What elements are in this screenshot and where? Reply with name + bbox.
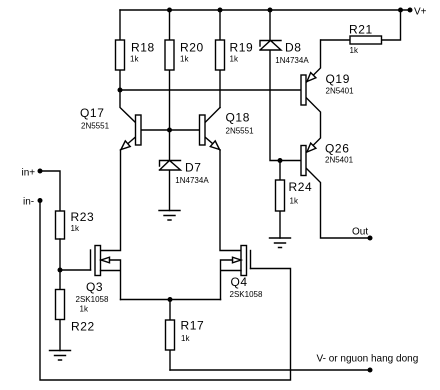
diode D7 zener: [160, 161, 181, 171]
svg-text:V+: V+: [414, 7, 427, 18]
wire D8 bottom lead down to Q26 base: [270, 50, 301, 161]
svg-text:R18: R18: [131, 41, 155, 55]
transistor Q4 mosfet: [250, 251, 252, 269]
svg-text:1k: 1k: [80, 305, 89, 314]
svg-text:D7: D7: [185, 161, 202, 175]
wire D7 top lead: [169, 130, 171, 161]
svg-text:2N5551: 2N5551: [226, 127, 255, 136]
svg-text:R23: R23: [71, 210, 95, 224]
diode D8 zener: [260, 41, 281, 51]
svg-text:R19: R19: [230, 41, 254, 55]
wire Q4 gate to in- return: [40, 201, 291, 381]
wire Q17 Q18 base link: [141, 129, 200, 131]
svg-text:R21: R21: [349, 23, 373, 37]
resistor R24: [279, 161, 281, 239]
node rail R21: [398, 8, 403, 13]
svg-text:1k: 1k: [181, 334, 190, 343]
resistor R18: [116, 40, 125, 70]
terminal Out: [368, 236, 373, 241]
resistor R17: [169, 300, 171, 371]
wire gate node to Q3 gate: [60, 269, 91, 271]
node base link: [167, 128, 172, 133]
transistor Q19: [306, 40, 321, 83]
node gate R23 R22: [58, 268, 63, 273]
svg-text:Q18: Q18: [226, 111, 250, 125]
terminal in-: [38, 198, 43, 203]
svg-text:R24: R24: [289, 180, 313, 194]
wire D7 bottom lead to ground: [169, 170, 171, 211]
resistor R23: [56, 211, 65, 239]
svg-text:R22: R22: [71, 320, 95, 334]
svg-text:Q17: Q17: [80, 106, 104, 120]
svg-text:1k: 1k: [350, 46, 359, 55]
svg-text:Q26: Q26: [325, 142, 349, 156]
svg-text:R17: R17: [181, 319, 205, 333]
svg-text:R20: R20: [180, 41, 204, 55]
svg-text:2N5401: 2N5401: [325, 156, 354, 165]
transistor Q17: [120, 90, 136, 123]
terminal V+: [408, 8, 413, 13]
wire R20 bottom lead down to base rail: [169, 70, 171, 130]
svg-text:2SK1058: 2SK1058: [76, 295, 109, 304]
svg-text:2N5401: 2N5401: [326, 87, 355, 96]
svg-text:Q3: Q3: [86, 280, 103, 294]
wire D8 top lead: [269, 10, 271, 41]
wire top rail V+: [120, 9, 410, 11]
svg-text:2SK1058: 2SK1058: [230, 290, 263, 299]
node rail R20: [167, 8, 172, 13]
transistor Q3 mosfet: [90, 250, 92, 270]
svg-text:V- or nguon hang dong: V- or nguon hang dong: [317, 354, 419, 365]
node rail D8: [268, 8, 273, 13]
wire R23 bottom to gate node: [59, 239, 61, 270]
wire R18 top lead: [119, 10, 121, 40]
svg-text:in+: in+: [22, 168, 36, 179]
terminal in+: [38, 169, 43, 174]
svg-text:Q19: Q19: [326, 72, 350, 86]
wire base line y=90 to Q19: [120, 89, 301, 91]
wire Q17 emitter down to Q3 drain: [101, 150, 121, 251]
wire R18 bottom lead: [119, 70, 121, 90]
svg-text:1k: 1k: [130, 55, 139, 64]
svg-text:2N5551: 2N5551: [81, 122, 110, 131]
ground under R22: [50, 351, 71, 361]
resistor R21: [350, 36, 382, 44]
svg-text:1k: 1k: [180, 55, 189, 64]
resistor R20: [165, 40, 174, 70]
wire R19 bottom lead: [219, 70, 221, 108]
svg-text:1N4734A: 1N4734A: [275, 56, 309, 65]
input in+ wire: [40, 171, 60, 211]
terminal V-: [368, 368, 373, 373]
wire V- line: [170, 369, 370, 371]
wire source line to R17: [121, 299, 221, 301]
node R24 top: [278, 158, 283, 163]
resistor R22: [59, 270, 61, 351]
svg-text:1N4734A: 1N4734A: [175, 176, 209, 185]
transistor Q26: [306, 168, 370, 238]
svg-text:1k: 1k: [290, 197, 299, 206]
svg-text:Q4: Q4: [231, 275, 248, 289]
wire Q18 emitter down to Q4 drain: [220, 150, 241, 251]
svg-text:Out: Out: [352, 227, 368, 238]
ground under D7: [159, 211, 180, 221]
wire R20 top lead: [169, 10, 171, 40]
svg-text:1k: 1k: [71, 224, 80, 233]
node R17 top: [168, 297, 173, 302]
ground under R24: [270, 238, 291, 248]
node rail R19: [218, 8, 223, 13]
wire R21 right lead to rail: [382, 10, 401, 40]
svg-text:D8: D8: [285, 41, 302, 55]
svg-text:1k: 1k: [230, 55, 239, 64]
wire R19 top lead: [219, 10, 221, 40]
wire R21 left lead: [321, 39, 350, 41]
resistor R19: [216, 40, 225, 70]
node R18 bottom: [118, 88, 123, 93]
transistor Q18: [205, 108, 220, 123]
svg-text:in-: in-: [23, 197, 34, 208]
